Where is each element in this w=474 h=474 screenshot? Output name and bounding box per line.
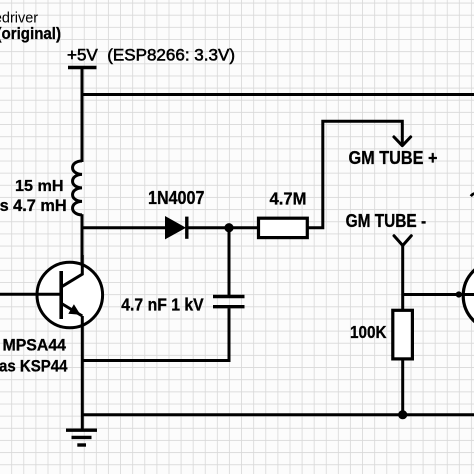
svg-text:+5V (ESP8266: 3.3V): +5V (ESP8266: 3.3V)	[67, 46, 235, 64]
wire inductor to collector node	[81, 214, 84, 275]
wire resistor R2 to bottom rail	[401, 359, 404, 415]
inductor L1 15 mH	[73, 161, 82, 215]
transistor Q1 emitter arrow	[68, 304, 80, 314]
svg-text:GM TUBE -: GM TUBE -	[346, 210, 427, 231]
junction node diode/cap/resistor	[224, 223, 233, 232]
wire junction to meter circle	[403, 293, 474, 296]
wire resistor R1 to GM TUBE + arrow	[307, 121, 402, 227]
ground symbol bar 2	[72, 436, 92, 439]
transistor Q1 base bar	[59, 271, 63, 319]
wire capacitor bottom to emitter rail	[228, 308, 231, 360]
svg-text:as KSP44: as KSP44	[0, 357, 68, 376]
wire top rail to right edge	[82, 93, 474, 96]
GM TUBE - terminal arrow	[394, 236, 411, 246]
resistor R1 4.7M body	[259, 218, 308, 237]
svg-text:4.7 nF 1 kV: 4.7 nF 1 kV	[121, 294, 204, 314]
wire emitter down to ground	[81, 316, 84, 430]
partial glyph at right edge	[471, 194, 474, 197]
junction node on bottom rail	[398, 410, 407, 419]
wire base from left edge	[0, 293, 60, 296]
transistor Q1 collector line	[62, 255, 83, 287]
wire +5V down to inductor	[81, 68, 84, 163]
capacitor C1 top plate	[213, 295, 245, 298]
ground symbol bar 3	[77, 443, 86, 446]
wire bottom rail	[82, 413, 474, 416]
svg-text:15 mH: 15 mH	[15, 178, 64, 195]
svg-text:GM TUBE +: GM TUBE +	[349, 147, 438, 168]
capacitor C1 bottom plate	[213, 305, 245, 308]
capacitor C1 wire from junction down	[228, 228, 231, 295]
diode D1 1N4007 triangle	[166, 217, 186, 239]
wire GM TUBE - arrow down to resistor R2	[401, 246, 404, 312]
svg-text:100K: 100K	[350, 322, 387, 342]
svg-text:as 4.7 mH: as 4.7 mH	[0, 197, 67, 215]
svg-text:MPSA44: MPSA44	[3, 336, 67, 355]
transistor Q1 emitter line	[62, 304, 83, 317]
svg-text:(original): (original)	[0, 24, 61, 43]
GM TUBE + terminal arrow	[394, 137, 411, 146]
meter M1 circle (clipped at right edge)	[463, 261, 474, 331]
resistor R2 100K body	[393, 310, 413, 359]
wire node to diode anode	[81, 226, 167, 229]
+5V supply terminal bar	[68, 66, 97, 69]
svg-text:1N4007: 1N4007	[148, 187, 204, 208]
junction dot at meter	[456, 291, 462, 297]
transistor Q1 circle	[37, 262, 103, 328]
diode D1 cathode bar	[185, 217, 188, 239]
wire emitter junction to capacitor	[82, 359, 231, 362]
ground symbol bar 1	[66, 429, 97, 432]
wire diode cathode to resistor R1	[187, 226, 259, 229]
svg-text:4.7M: 4.7M	[270, 189, 307, 209]
